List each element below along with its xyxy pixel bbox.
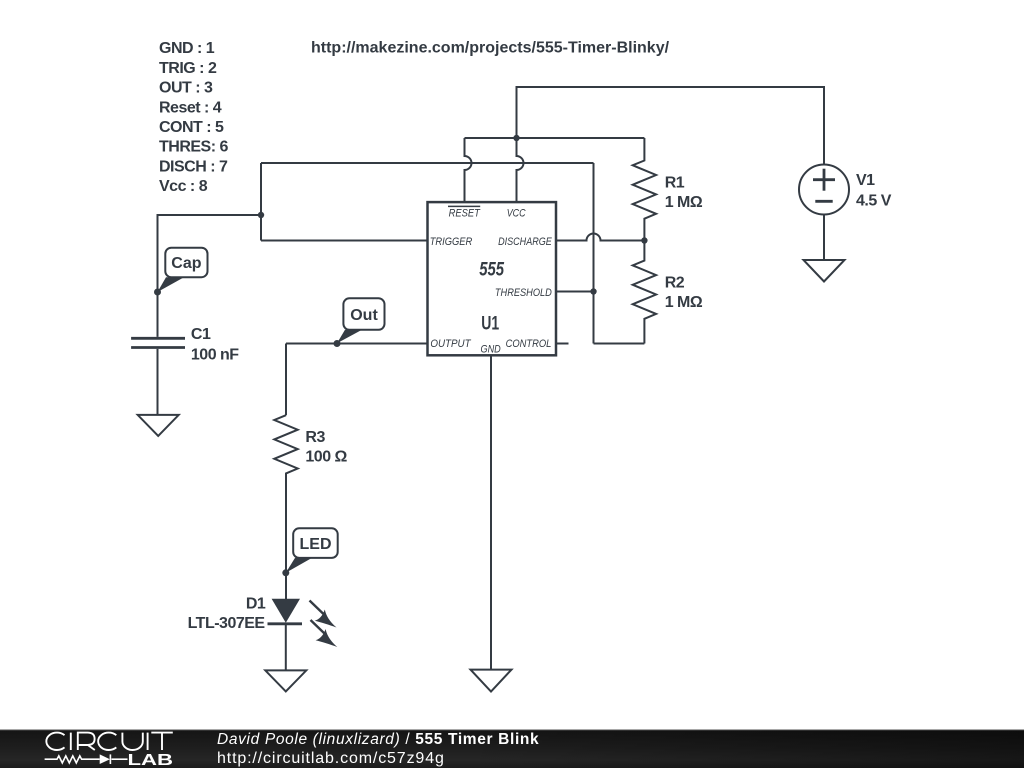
svg-text:THRESHOLD: THRESHOLD xyxy=(495,287,552,299)
ground under U1 xyxy=(471,670,512,692)
label D1 xyxy=(188,596,266,633)
capacitor C1 xyxy=(131,338,185,347)
node junction at Vcc rail xyxy=(513,135,519,141)
wire RESET pin riser (hop over horizontal) xyxy=(465,138,472,202)
svg-text:Cap: Cap xyxy=(171,255,201,272)
resistor R3 xyxy=(274,415,297,599)
diode D1 LED symbol xyxy=(268,599,303,671)
svg-text:CONT : 5: CONT : 5 xyxy=(159,119,224,136)
node junction R1/R2/discharge xyxy=(641,237,647,243)
svg-text:VCC: VCC xyxy=(507,208,527,220)
svg-text:GND : 1: GND : 1 xyxy=(159,40,215,57)
svg-text:TRIG : 2: TRIG : 2 xyxy=(159,60,217,77)
svg-text:555: 555 xyxy=(479,260,504,281)
ground under V1 xyxy=(804,260,845,282)
label R1 value xyxy=(665,174,703,211)
svg-text:OUTPUT: OUTPUT xyxy=(430,338,471,350)
svg-text:TRIGGER: TRIGGER xyxy=(430,236,473,248)
svg-text:U1: U1 xyxy=(481,313,499,334)
svg-text:http://makezine.com/projects/5: http://makezine.com/projects/555-Timer-B… xyxy=(311,40,670,57)
svg-text:David Poole (linuxlizard) / 55: David Poole (linuxlizard) / 555 Timer Bl… xyxy=(217,731,539,748)
wire C1 bottom lead xyxy=(157,349,159,415)
svg-text:1 MΩ: 1 MΩ xyxy=(665,294,703,311)
wire THRESHOLD pin xyxy=(556,291,594,293)
flag Out xyxy=(337,298,385,343)
svg-text:Reset : 4: Reset : 4 xyxy=(159,99,222,116)
svg-text:DISCH : 7: DISCH : 7 xyxy=(159,158,228,175)
voltage source V1 xyxy=(799,165,849,215)
pin list text block xyxy=(159,40,229,195)
flag Cap xyxy=(158,248,208,292)
svg-text:Vcc : 8: Vcc : 8 xyxy=(159,178,208,195)
svg-text:LED: LED xyxy=(300,536,332,553)
resistor R1 xyxy=(633,138,656,241)
wire right drop x=593.5 xyxy=(593,163,595,344)
U1 pin labels xyxy=(430,208,553,356)
wire TRIGGER pin xyxy=(261,240,428,242)
ground under LED xyxy=(265,670,306,691)
node out flag anchor xyxy=(334,340,341,347)
wire R2 bottom link xyxy=(594,343,645,345)
wire U1 GND pin xyxy=(490,355,492,669)
svg-text:100 nF: 100 nF xyxy=(191,347,239,364)
svg-text:R3: R3 xyxy=(305,429,325,446)
svg-text:D1: D1 xyxy=(246,596,266,613)
wire cap branch xyxy=(158,215,262,337)
flag LED xyxy=(286,528,338,573)
wire DISCHARGE pin with hop xyxy=(556,234,644,241)
wire OUTPUT pin xyxy=(286,343,428,345)
svg-text:Out: Out xyxy=(350,307,378,324)
svg-text:http://circuitlab.com/c57z94g: http://circuitlab.com/c57z94g xyxy=(217,750,445,767)
makezine url label xyxy=(311,40,670,57)
IC U1 555 timer body xyxy=(428,202,557,355)
svg-text:R1: R1 xyxy=(665,174,685,191)
wire RESET/VCC tie bar xyxy=(465,137,645,139)
svg-text:GND: GND xyxy=(481,343,501,355)
label R2 value xyxy=(665,274,703,311)
svg-text:C1: C1 xyxy=(191,326,211,343)
svg-text:LAB: LAB xyxy=(128,752,174,768)
node LED flag anchor xyxy=(282,569,289,576)
logo CIRCUIT wordmark xyxy=(46,733,172,750)
svg-text:V1: V1 xyxy=(856,172,875,189)
wire VCC pin riser (hop over horizontal) xyxy=(517,138,524,202)
U1 RESET overline xyxy=(448,205,480,207)
label V1 value xyxy=(856,172,892,210)
footer bar xyxy=(0,729,1024,768)
D1 light arrows xyxy=(310,601,338,648)
wire trigger net horizontal xyxy=(261,162,594,164)
label C1 value xyxy=(191,326,239,364)
wire left drop to trigger xyxy=(260,163,262,241)
node cap flag anchor xyxy=(154,289,161,296)
svg-text:4.5 V: 4.5 V xyxy=(856,193,892,210)
wire CONTROL stub xyxy=(556,343,569,345)
svg-text:R2: R2 xyxy=(665,274,685,291)
wire V1 bottom lead xyxy=(823,215,825,261)
node junction threshold xyxy=(590,288,596,294)
svg-text:THRES: 6: THRES: 6 xyxy=(159,139,229,156)
svg-text:DISCHARGE: DISCHARGE xyxy=(498,236,552,248)
resistor R2 xyxy=(633,241,656,344)
label R3 value xyxy=(305,429,347,466)
svg-text:1 MΩ: 1 MΩ xyxy=(665,194,703,211)
wire output drop to R3 xyxy=(285,344,287,416)
svg-text:OUT : 3: OUT : 3 xyxy=(159,80,213,97)
svg-text:RESET: RESET xyxy=(449,208,481,220)
ground under C1 xyxy=(138,415,179,436)
node junction trigger/cap xyxy=(258,212,264,218)
wire Vcc top rail xyxy=(517,87,825,165)
svg-text:LTL-307EE: LTL-307EE xyxy=(188,615,266,632)
logo resistor-diode glyph xyxy=(45,754,128,764)
logo diode triangle xyxy=(100,754,110,764)
svg-text:100 Ω: 100 Ω xyxy=(305,449,347,466)
svg-text:CONTROL: CONTROL xyxy=(506,338,552,350)
